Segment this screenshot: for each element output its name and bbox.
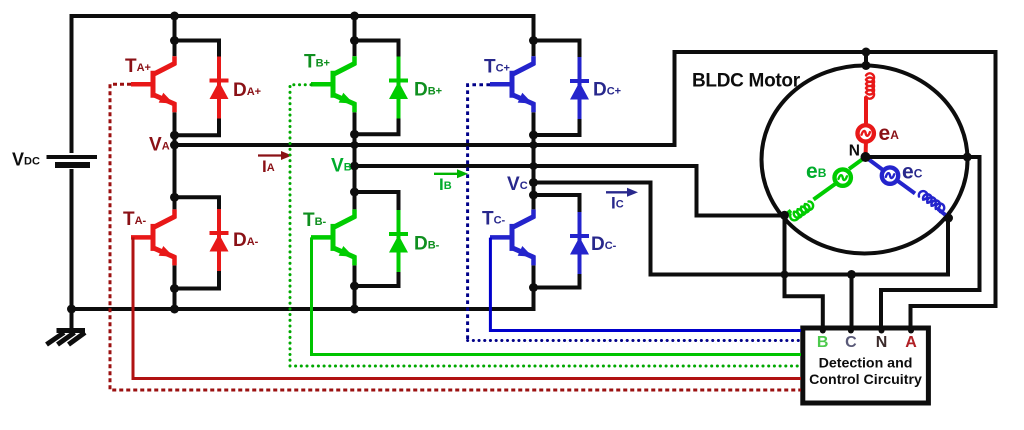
- wire DC+ branch top: [534, 39, 582, 43]
- winding C lead inner: [866, 157, 916, 194]
- wire DB+ branch top: [355, 39, 401, 43]
- winding B lead outer: [785, 211, 791, 216]
- label Control Circuitry: [809, 372, 922, 388]
- node phase C tap junction: [847, 270, 856, 279]
- node motor phase B terminal: [780, 211, 789, 220]
- label TC+: [484, 57, 510, 78]
- transistor TA-: [131, 209, 175, 265]
- wire DB+ branch bottom: [355, 132, 401, 136]
- label DB+: [414, 80, 442, 101]
- wire phase B leg vertical middle: [353, 112, 357, 209]
- winding A lead: [864, 97, 869, 159]
- diode DB+: [389, 41, 408, 135]
- wire DA+ branch top: [175, 39, 222, 43]
- wire DC- branch bottom: [534, 286, 582, 290]
- winding A coil: [866, 73, 874, 98]
- diode DB-: [389, 192, 408, 286]
- controller terminal N: [879, 328, 885, 334]
- node crossing B wire on VC run: [781, 271, 789, 279]
- arrow IA: [258, 151, 292, 160]
- node A upper loop top: [170, 36, 179, 45]
- ground: [47, 309, 86, 345]
- label N: [849, 143, 860, 160]
- back-EMF source eA: [858, 125, 874, 141]
- wire DC- branch top: [534, 193, 582, 197]
- wire DA- branch top: [175, 195, 222, 199]
- node motor phase C terminal: [944, 214, 953, 223]
- wire TC+ gate dotted horizontal: [468, 339, 801, 342]
- wire TB- gate: [312, 237, 802, 354]
- battery VDC: [47, 157, 98, 165]
- node crossing VA phase C leg: [530, 141, 538, 149]
- svg-text:N: N: [876, 334, 888, 351]
- label DA-: [233, 230, 259, 251]
- wire phase B terminal to controller: [785, 215, 823, 331]
- svg-text:A: A: [905, 334, 917, 351]
- svg-text:B: B: [817, 334, 829, 351]
- label Detection and: [819, 356, 913, 372]
- label VC: [507, 174, 528, 195]
- wire left VDC rail lower segment: [70, 169, 74, 311]
- label DC+: [593, 80, 621, 101]
- back-EMF source eB: [835, 169, 851, 185]
- svg-text:BLDC Motor: BLDC Motor: [692, 71, 801, 92]
- svg-text:C: C: [845, 334, 857, 351]
- wire DA+ branch bottom: [175, 133, 222, 137]
- label TA+: [125, 56, 151, 77]
- winding C coil: [919, 191, 944, 212]
- svg-text:Detection and: Detection and: [819, 356, 913, 372]
- diode DC+: [570, 41, 589, 135]
- wire motor top stub: [864, 52, 868, 67]
- node VC: [529, 178, 538, 187]
- wire neutral N to controller: [866, 157, 980, 331]
- label terminal B: [817, 334, 829, 351]
- node C upper loop bottom: [529, 131, 538, 140]
- node C upper loop top: [529, 36, 538, 45]
- node N star point: [861, 152, 871, 162]
- wire left VDC rail upper segment: [70, 14, 74, 153]
- transistor TB-: [311, 209, 355, 265]
- node bottom bus phase B: [350, 305, 359, 314]
- wire phase B leg vertical lower: [353, 265, 357, 311]
- wire DB- branch bottom: [355, 284, 401, 288]
- arrow IC: [606, 188, 638, 197]
- node VA: [170, 141, 179, 150]
- wire top DC bus: [70, 14, 534, 18]
- wire TC- gate: [490, 238, 801, 331]
- winding B lead inner: [814, 157, 866, 200]
- wire TA+ gate dashed: [110, 84, 801, 390]
- diode DA+: [210, 41, 229, 136]
- label terminal C: [845, 334, 857, 351]
- wire DB- branch top: [355, 190, 401, 194]
- transistor TC+: [490, 56, 534, 112]
- node A upper loop bottom: [170, 131, 179, 140]
- wire phase C leg vertical lower: [532, 265, 536, 311]
- back-EMF source eC: [882, 167, 898, 183]
- wire phase C leg vertical upper: [532, 14, 536, 56]
- node N wire circle crossing: [963, 153, 972, 162]
- label IA: [262, 157, 275, 176]
- transistor TB+: [311, 56, 355, 112]
- wire phase A leg vertical middle: [173, 112, 177, 209]
- wire phase B leg vertical upper: [353, 14, 357, 56]
- controller terminal C: [848, 328, 854, 334]
- wire phase C tap to controller: [850, 275, 854, 332]
- label DB-: [414, 234, 440, 255]
- label TC-: [482, 209, 506, 230]
- svg-text:N: N: [849, 143, 860, 160]
- node A lower loop top: [170, 193, 179, 202]
- diode DA-: [210, 197, 229, 288]
- wire phase C leg vertical middle: [532, 112, 536, 209]
- arrow IB: [434, 169, 468, 178]
- node crossing VB phase C leg: [530, 162, 538, 170]
- wire VC to motor phase C: [534, 183, 949, 275]
- wire VA to motor phase A: [175, 52, 996, 331]
- wire VB to motor phase B: [355, 166, 785, 216]
- wire bottom negative bus: [70, 307, 534, 311]
- node motor top bus junction: [862, 48, 871, 57]
- wire phase A leg vertical lower: [173, 265, 177, 311]
- label TB+: [304, 52, 330, 73]
- label eB: [806, 160, 827, 183]
- winding C lead outer: [938, 209, 948, 217]
- label terminal A: [905, 334, 917, 351]
- node A lower loop bottom: [170, 284, 179, 293]
- node C lower loop top: [529, 191, 538, 200]
- label IC: [611, 194, 624, 213]
- wire TC+ gate dashed vertical: [468, 85, 490, 341]
- winding B coil: [790, 201, 813, 220]
- label DA+: [233, 80, 261, 101]
- label terminal N: [876, 334, 888, 351]
- label eA: [879, 122, 900, 145]
- BLDC motor stator circle: [762, 66, 968, 254]
- label VA: [149, 135, 170, 156]
- transistor TA+: [131, 56, 175, 112]
- node VB: [350, 162, 359, 171]
- wire TA- gate: [133, 237, 801, 378]
- node bus-ground junction: [67, 305, 76, 314]
- svg-text:Control Circuitry: Control Circuitry: [809, 372, 922, 388]
- label IB: [439, 175, 452, 194]
- label TB-: [303, 210, 327, 231]
- controller terminal B: [820, 328, 826, 334]
- node top bus phase A: [170, 12, 179, 21]
- label DC-: [591, 234, 617, 255]
- label TA-: [123, 209, 147, 230]
- label eC: [902, 161, 923, 184]
- diode DC-: [570, 195, 589, 288]
- node B upper loop top: [350, 36, 359, 45]
- transistor TC-: [490, 209, 534, 265]
- controller box: [803, 328, 929, 403]
- wire DA- branch bottom: [175, 287, 222, 291]
- node top bus phase B: [350, 12, 359, 21]
- node B upper loop bottom: [350, 130, 359, 139]
- label VDC: [12, 150, 40, 170]
- node C lower loop bottom: [529, 283, 538, 292]
- node motor phase A terminal: [862, 61, 871, 70]
- node crossing VA phase B leg: [351, 141, 359, 149]
- wire DC+ branch bottom: [534, 133, 582, 137]
- label BLDC Motor: [692, 71, 801, 92]
- node B lower loop bottom: [350, 282, 359, 291]
- wire TB+ gate dotted: [290, 85, 801, 366]
- label VB: [331, 156, 352, 177]
- node B lower loop top: [350, 188, 359, 197]
- wire phase A leg vertical upper: [173, 14, 177, 56]
- controller terminal A: [908, 328, 914, 334]
- node bottom bus phase A: [170, 305, 179, 314]
